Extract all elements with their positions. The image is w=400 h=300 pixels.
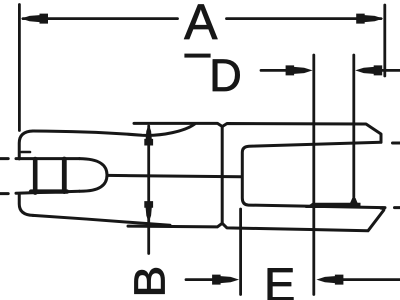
chain link bottom thick segment between bars: [31, 189, 67, 193]
wire: slot line from link cap to fork slot: [107, 175, 241, 176]
wire: short inner slot tick at jaw left: [22, 151, 31, 154]
dash bar above D label: [184, 54, 210, 58]
dimension B line: [147, 126, 150, 254]
svg-text:B: B: [125, 266, 174, 298]
dimension B top arrowhead (points up): [144, 124, 153, 145]
left jaw bottom edge curve: [33, 215, 170, 225]
fork slot top edge sloping + slot left rounded end: [242, 142, 385, 207]
left jaw top edge curve (merges into fork top line): [33, 124, 195, 135]
chain link right end cap: [80, 159, 108, 192]
chain link crossing bar 1: [33, 159, 38, 193]
dimension D right arrowhead (points left at pin line): [355, 65, 382, 75]
dimension D left arrowhead (points right at pin line): [286, 65, 313, 75]
chain link crossing bar 2: [62, 159, 67, 192]
dimension A left arrowhead: [21, 14, 48, 24]
dimension E left arrowhead (points right): [212, 275, 239, 285]
dimension A right extension line: [383, 5, 386, 76]
dimension E left extension line: [239, 209, 242, 295]
wire: right part stub lower (image right edge): [395, 206, 400, 209]
dimension B bottom arrowhead (points down): [144, 201, 153, 222]
left jaw outer outline top-left corner + left edge upper segment: [19, 131, 33, 159]
left jaw left edge lower segment + bottom-left corner: [19, 195, 33, 216]
chain link bottom line: [16, 191, 80, 193]
dimension A left extension line: [18, 5, 21, 131]
fork top edge with V-notch: [134, 123, 381, 141]
svg-text:A: A: [184, 0, 218, 50]
svg-text:D: D: [209, 50, 242, 101]
wire: chain link top line stub (left image edge): [0, 157, 8, 160]
pin seat thick bar on slot bottom: [305, 203, 361, 208]
dimension A right arrowhead: [356, 14, 383, 24]
dimension A line left segment: [23, 17, 178, 20]
dimension E right arrowhead (points left): [316, 275, 343, 285]
svg-text:E: E: [264, 258, 295, 300]
wire: chain link bottom line stub (left image edge): [0, 192, 8, 195]
pin line right (x=353.8): [352, 55, 355, 203]
body bottom edge from waist to fork with notch and right chamfer: [128, 208, 384, 231]
node: vertical body junction line at notch: [221, 127, 224, 224]
chain link top line: [16, 157, 80, 160]
pin line left (x=313.8) through fork down to E extension: [312, 55, 315, 295]
dimension E left arrow line: [186, 278, 216, 281]
pin flare at bottom of right pin line: [349, 198, 358, 205]
dimension D right arrow line: [378, 69, 400, 72]
dimension A line right segment: [227, 17, 382, 20]
wire: right part stub upper (image right edge): [393, 142, 400, 145]
dimension E right arrow line: [341, 278, 400, 281]
dimension D left arrow line: [261, 69, 290, 72]
